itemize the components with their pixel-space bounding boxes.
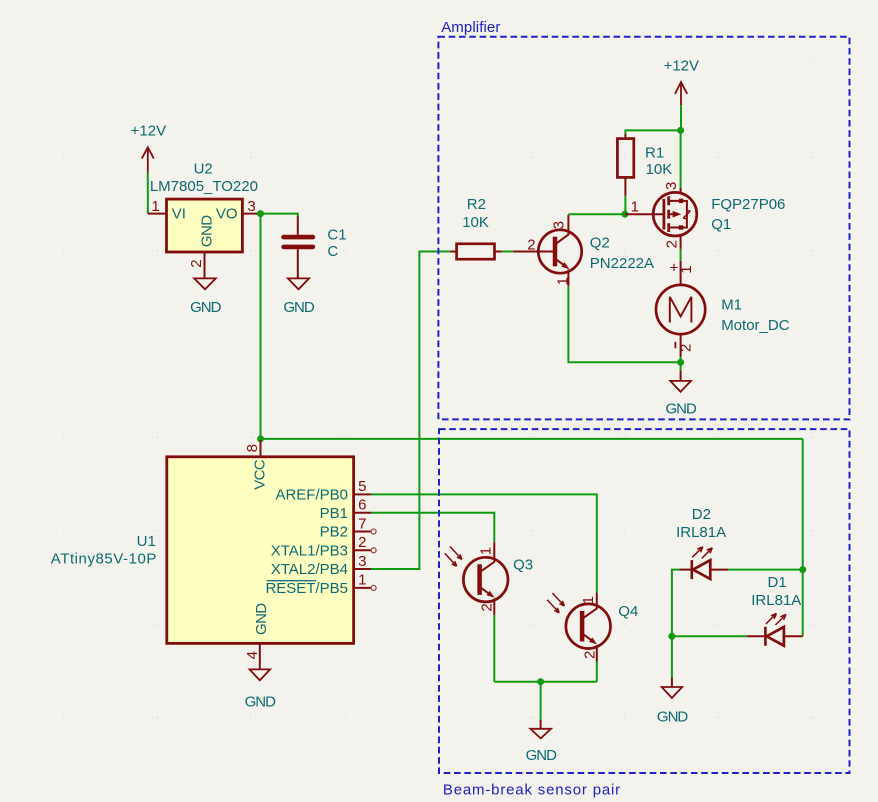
power +12V (amplifier) [664,57,699,105]
wire Q4 emitter to GND rail [596,662,598,682]
svg-text:GND: GND [190,299,222,316]
svg-text:Amplifier: Amplifier [441,19,500,36]
U1 pin 7 [354,531,371,533]
svg-text:4: 4 [244,651,261,659]
wire VCC rail to LED anode rail [261,438,803,440]
wire Q3 emitter to GND rail [493,615,495,682]
node Q1 gate junction [621,211,628,218]
svg-text:2: 2 [527,236,535,253]
svg-text:M1: M1 [721,297,742,314]
ground pin (sensors) [540,720,542,728]
voltage regulator U2 body [167,199,243,252]
svg-text:VO: VO [216,206,238,223]
Q1 drain pin [680,188,682,194]
U1 pin 3 [354,568,371,570]
Q1 gate pin [625,213,663,215]
wire +12V to U2 pin 1 [147,173,149,214]
ground symbol (LEDs) [662,687,683,698]
svg-text:2: 2 [188,259,205,267]
svg-text:PB2: PB2 [320,524,348,541]
U2 pin 2 [204,252,206,278]
svg-text:PN2222A: PN2222A [590,255,654,272]
node VCC junction [257,435,264,442]
node D1 junction [668,633,675,640]
svg-text:+12V: +12V [131,123,166,140]
LED D1 IRL81A [765,614,786,646]
Beam-break region box [439,429,850,773]
node +12V/R1 junction [677,127,684,134]
svg-text:XTAL1/PB3: XTAL1/PB3 [271,542,348,559]
Amplifier region box [438,37,849,420]
svg-text:R1: R1 [645,145,664,162]
unconnected pin end (PB5) [371,585,376,590]
svg-text:GND: GND [526,747,558,764]
U1 pin 2 [354,549,371,551]
U1 pin 8 [260,440,262,457]
svg-text:3: 3 [551,221,568,229]
svg-text:XTAL2/PB4: XTAL2/PB4 [271,561,348,578]
unconnected pin end (PB2) [371,529,376,534]
ground symbol (U1) [250,669,271,680]
wire Q1 source to motor [680,249,682,261]
resistor R2 body [457,244,495,259]
capacitor C1 pin 2 [297,249,299,278]
wire D2 anode to rail [728,569,803,571]
svg-text:GND: GND [253,603,270,635]
motor M1 pin 1 [680,261,682,285]
svg-text:3: 3 [247,198,255,215]
wire motor to GND [680,357,682,363]
svg-text:1: 1 [478,547,495,555]
D1 cathode pin [747,635,764,637]
svg-text:D2: D2 [692,506,711,523]
node sensor GND junction [537,678,544,685]
svg-text:1: 1 [580,596,597,604]
svg-text:U2: U2 [194,161,213,178]
svg-text:RESET/PB5: RESET/PB5 [265,580,348,597]
ground symbol (U2) [194,278,216,289]
wire D1 cathode to junction [672,635,747,637]
svg-text:1: 1 [358,572,366,589]
LED D2 IRL81A [692,547,713,579]
wire R1 to Q1 gate [624,196,626,214]
svg-text:1: 1 [631,199,639,216]
resistor R2 pin 1 [450,251,457,253]
svg-text:Q1: Q1 [711,216,731,233]
capacitor C1 bottom plate [284,245,313,250]
ground stem (amplifier) [680,362,682,371]
ground pin (LEDs) [671,678,673,687]
svg-text:GND: GND [245,693,277,710]
svg-text:2: 2 [581,651,598,659]
svg-text:AREF/PB0: AREF/PB0 [275,486,348,503]
svg-text:D1: D1 [768,574,787,591]
wire VO to VCC rail [260,214,262,439]
svg-text:1: 1 [151,198,159,215]
svg-text:2: 2 [479,603,496,611]
wire R2 to Q2 base [502,251,514,253]
U2 pin 1 [148,213,167,215]
svg-text:C1: C1 [327,227,346,244]
wire junction to GND symbol [540,682,542,720]
svg-text:GND: GND [666,400,698,417]
svg-text:10K: 10K [646,161,673,178]
svg-text:Beam-break sensor pair: Beam-break sensor pair [443,781,621,798]
svg-text:2: 2 [663,240,680,248]
svg-text:7: 7 [358,515,366,532]
wire +12V to Q1 drain [680,105,682,188]
transistor Q2 PN2222A [538,215,581,287]
svg-text:Q3: Q3 [513,557,533,574]
svg-text:8: 8 [244,444,261,452]
power +12V (left) [131,123,166,173]
Q1 source pin [680,236,682,249]
wire VO to C1 [261,214,298,217]
svg-text:Motor_DC: Motor_DC [721,317,790,334]
wire PB1 to Q3 collector [371,513,494,543]
svg-text:IRL81A: IRL81A [676,524,726,541]
svg-text:ATtiny85V-10P: ATtiny85V-10P [51,551,157,568]
motor M1 Motor_DC [656,285,705,334]
U2 pin 3 [242,213,260,215]
svg-text:IRL81A: IRL81A [751,592,801,609]
node amplifier GND junction [677,359,684,366]
MOSFET Q1 FQP27P06 [653,192,697,236]
svg-text:VI: VI [172,206,186,223]
ground symbol (sensors) [530,729,551,739]
U1 pin 6 [354,512,371,514]
svg-text:GND: GND [199,215,216,247]
phototransistor Q4 [547,593,610,662]
motor minus label [674,342,676,349]
D2 anode pin [710,569,728,571]
wire Q2 collector to Q1 gate [568,213,625,215]
svg-text:Q2: Q2 [590,235,610,252]
resistor R1 body [617,139,633,178]
resistor R1 pin 1 [624,134,626,139]
svg-text:LM7805_TO220: LM7805_TO220 [150,178,258,195]
ground symbol (C1) [288,278,309,289]
capacitor C1 top plate [284,235,313,240]
wire anode rail down [802,439,804,636]
svg-text:U1: U1 [137,533,156,550]
svg-text:C: C [327,243,338,260]
capacitor C1 pin 1 [297,217,299,235]
svg-text:PB1: PB1 [320,505,348,522]
svg-text:1: 1 [678,265,695,273]
U1 pin 1 [354,587,371,589]
resistor R2 pin 2 [495,251,502,253]
svg-text:GND: GND [657,709,689,726]
svg-text:FQP27P06: FQP27P06 [711,196,785,213]
svg-text:3: 3 [663,182,680,190]
ground pin (amplifier) [680,371,682,380]
svg-text:Q4: Q4 [618,603,638,620]
wire D2 cathode down [672,570,679,637]
svg-text:10K: 10K [462,214,489,231]
wire PB0 to Q4 collector [371,494,597,593]
ground symbol (amplifier) [670,381,691,392]
U1 pin 5 [354,493,371,495]
wire +12V to R1 [625,130,680,135]
resistor R1 pin 2 [624,177,626,195]
wire sensor GND rail [494,681,597,683]
svg-text:3: 3 [358,553,366,570]
RESET overline [267,580,316,582]
D1 anode pin [784,635,803,637]
svg-text:+12V: +12V [664,57,699,74]
wire junction to GND symbol (LEDs) [671,636,673,677]
wire Q2 emitter to GND rail [568,286,680,362]
motor M1 pin 2 [680,334,682,356]
svg-text:R2: R2 [467,196,486,213]
svg-text:VCC: VCC [252,459,269,490]
wire PB4 to R2 [371,252,450,570]
unconnected pin end (PB3) [371,548,376,553]
svg-text:6: 6 [358,497,366,514]
U1 pin 4 [259,643,261,669]
phototransistor Q3 [445,542,508,615]
D2 cathode pin [679,569,690,571]
svg-text:2: 2 [358,534,366,551]
svg-text:5: 5 [358,478,366,495]
Q2 base pin [513,251,553,253]
svg-text:GND: GND [283,299,315,316]
microcontroller U1 body [167,457,354,644]
node D2 junction [799,566,806,573]
node VO junction [257,210,264,217]
svg-text:1: 1 [554,277,571,285]
